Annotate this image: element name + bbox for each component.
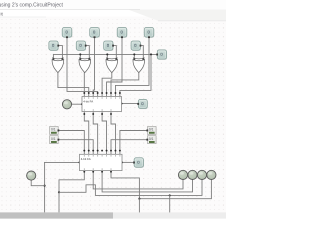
pin dot: adder1 bottom pin2 [92,113,94,115]
LED output S2 [197,170,206,179]
pin dot: adder2 top pin3 [92,150,94,152]
LED carry (adder1 left) [62,100,71,109]
wire: switch R1 to adder2 pin9 [120,131,148,155]
wire: M tap down to XOR2 left input [79,54,81,59]
wire: A input 1 to adder1 pin4 [67,37,98,97]
toolbar band top-right [128,10,226,21]
wire: A input 3 to adder1 pin6 [107,37,122,97]
junction: LED4 line / bottom branch [138,198,140,200]
svg-text:0/1: 0/1 [149,137,154,141]
title bar separator [0,9,140,11]
wire: adder2 out bit2 to LED2 [102,171,192,192]
junction: M bus tap XOR2 [79,53,81,55]
wire: M distribution bus (horizontal) [53,53,156,55]
pin dot: adder1 top pin3 [92,92,94,94]
XOR gate 2 [79,58,91,73]
XOR gate 4 [133,58,145,73]
window background [0,0,226,223]
input pin A0 (top row square 4) [144,28,154,39]
output pin square (adder1 carry view) [137,99,148,109]
wire: switch R2 to adder2 pin7 [111,140,148,155]
pin dot: adder1 top pin5 [101,92,103,94]
pin dot: adder1 top pin9 [119,92,121,94]
canvas grid dots [0,19,226,213]
wire: B2 input to XOR2 right input [85,46,89,60]
wire: XOR2 output to adder1 pin1 [83,73,85,97]
wire: adder2 right output to pin square [122,161,133,163]
pin dot: adder1 top pin1 [83,92,85,94]
svg-text:0/1: 0/1 [51,137,56,141]
slide switch R1 [146,127,156,135]
input pin A2 (top row square 2) [90,28,100,39]
pin dot: adder2 top pin1 [83,150,85,152]
pin dot: adder1 top pin6 [106,92,108,94]
junction: M bus / Cin tap [150,53,152,55]
wire: M to adder1 Cin (pin9) [120,54,151,96]
wire: M tap down to XOR4 left input [133,54,135,59]
pin dot: adder1 top pin2 [88,92,90,94]
LED output S0 [178,170,187,179]
wire: adder2 left pin to left drop [45,161,80,163]
wire: B1 input to XOR3 right input [113,46,117,60]
pin dot: XOR4 left input [133,58,135,60]
pin dot: adder1 bottom pin3 [101,113,103,115]
wire: adder2 out bit1 to LED1 [93,171,183,189]
pin dot: XOR2 right input [88,58,90,60]
svg-text:4-bit FA: 4-bit FA [83,99,93,103]
wire: left net vertical drop [44,162,46,212]
pin dot: adder2 top pin6 [106,150,108,152]
wire: B0 input to XOR4 right input [140,46,143,60]
input pin A3 (top row square 1) [62,28,72,39]
pin dot: adder2 top pin7 [110,150,112,152]
XOR gate 1 [52,58,64,73]
slide switch L1 [50,127,60,135]
pin dot: adder1 top pin8 [115,92,117,94]
pin dot: adder2 top pin4 [97,150,99,152]
pin dot: adder2 left pin [78,161,80,163]
wire: adder1 S3 to adder2 pin6 [102,112,106,155]
wire: switch L2 to adder2 pin3 [58,140,93,155]
input pin B0 (second row square 4) [131,41,141,51]
junction: M bus tap XOR4 [133,53,135,55]
wire: adder1 S4 to adder2 pin8 [111,112,115,155]
pin dot: XOR3 left input [106,58,108,60]
toolbar band bottom edge [158,20,226,22]
LED sum carry (bottom left) [27,171,36,180]
wire: XOR1 output to adder1 pin2 [58,73,89,97]
wire: A input 2 to adder1 pin3 [93,37,94,97]
canvas background [0,17,226,213]
pin dot: adder1 top pin4 [97,92,99,94]
wire: sum carry LED branch [31,180,44,186]
wire: adder1 S2 to adder2 pin4 [93,112,97,155]
slide switch R2 [146,136,156,144]
pin dot: adder1 top pin7 [110,92,112,94]
wire: adder2 out bit3 to LED4 [111,171,211,199]
junction: bit0 drop / LED3 branch [58,191,60,193]
input pin M (mode select) [156,50,167,60]
junction: left net / carry LED branch [44,185,46,187]
wire: adder2 out bit0 to bottom edge [59,171,84,213]
wire: M tap down to XOR1 left input [52,54,54,59]
wire: B3 input to XOR1 right input [58,46,63,60]
subcircuit adder1 (4-bit FA) [82,97,122,112]
wire: branch to LED3 [59,180,202,196]
wire: XOR4 output to adder1 pin7 [111,73,139,97]
subcircuit adder2 (4-bit FA) [80,154,123,170]
pin dot: adder1 right pin [120,103,122,105]
wire: adder1 right output to pin square [122,103,138,105]
wire: XOR3 output to adder1 pin5 [102,73,112,97]
pin dot: adder2 bottom pin2 [92,171,94,173]
input pin A1 (top row square 3) [117,28,127,39]
pin dot: adder2 right pin [121,161,123,163]
wire: branch down from LED4 corner [138,199,140,213]
scrollbar thumb [0,212,113,218]
pin dot: adder1 left pin [81,103,83,105]
slide switch L2 [50,136,60,144]
output pin square (adder2 carry view) [133,158,144,168]
pin dot: adder2 bottom pin3 [101,171,103,173]
pin dot: adder2 top pin5 [101,150,103,152]
pin dot: adder2 bottom pin1 [83,171,85,173]
input pin B3 (second row square 1) [49,41,59,51]
tab row underline [0,16,46,18]
svg-text:0/1: 0/1 [51,128,56,132]
svg-text:4-bit FA: 4-bit FA [81,157,91,161]
pin dot: XOR2 left input [79,58,81,60]
wire: branch down from LED3 line [169,195,171,212]
input pin B2 (second row square 2) [76,41,86,51]
input pin B1 (second row square 3) [104,41,114,51]
junction: LED3 line branch [169,194,171,196]
XOR gate 3 [106,58,118,73]
wire: A input 4 to adder1 pin8 [115,37,149,97]
pin dot: adder2 top pin9 [119,150,121,152]
pin dot: adder2 bottom pin4 [110,171,112,173]
pin dot: adder1 bottom pin4 [110,113,112,115]
adder1 pin labels [84,97,120,111]
canvas grid dots coarse [0,19,226,213]
wire: M tap down to XOR3 left input [106,54,108,59]
pin dot: XOR3 right input [115,58,117,60]
pin dot: adder1 bottom pin1 [83,113,85,115]
pin dot: XOR1 left input [52,58,54,60]
junction: M bus tap XOR3 [106,53,108,55]
LED output S3 [207,170,216,179]
pin dot: adder2 top pin8 [115,150,117,152]
pin dot: XOR1 right input [61,58,63,60]
title bar [0,0,226,10]
scrollbar track [0,212,226,218]
wire: carry LED to adder1 left pin [71,103,82,105]
wire: adder1 S1 to adder2 pin2 [84,112,88,155]
svg-text:0/1: 0/1 [149,128,154,132]
wire: switch L1 to adder2 pin1 [58,131,84,155]
adder2 pin labels [84,155,120,170]
svg-text:using 2’s comp.CircuitProject: using 2’s comp.CircuitProject [0,2,63,8]
pin dot: XOR4 right input [142,58,144,60]
LED output S1 [188,170,197,179]
pin dot: adder2 top pin2 [88,150,90,152]
